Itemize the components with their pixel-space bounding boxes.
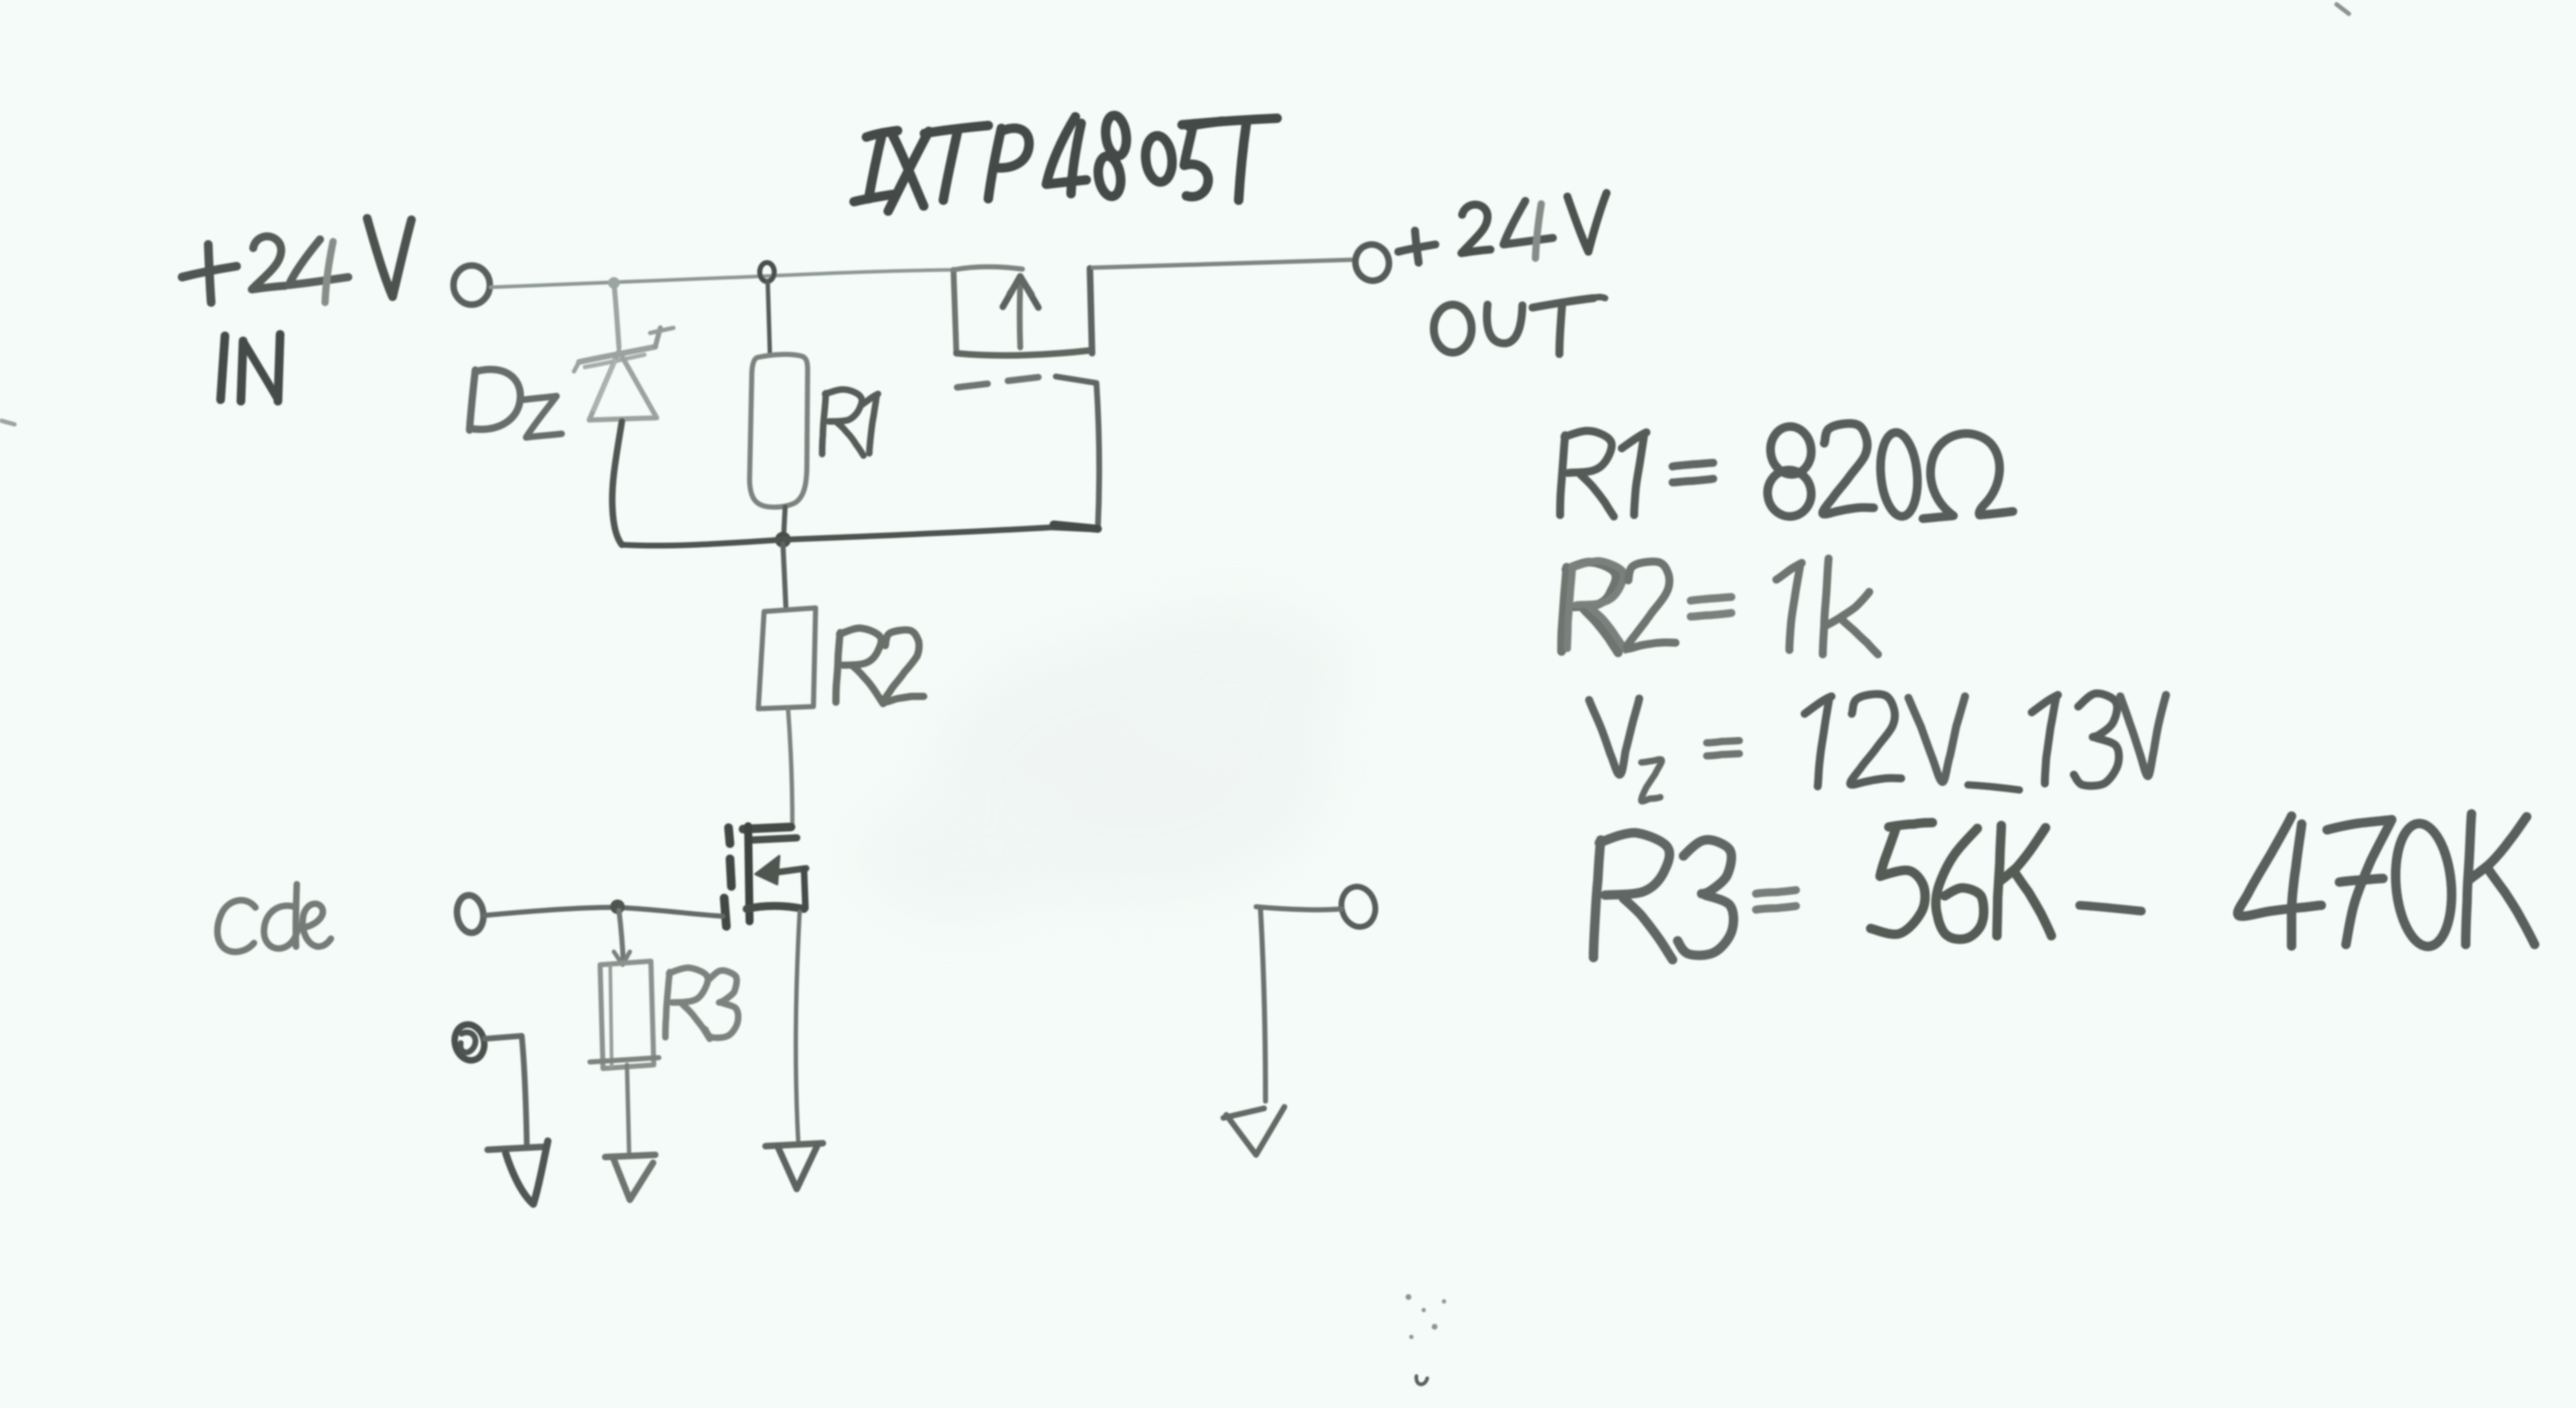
node rail-R1 junction	[760, 263, 774, 281]
wire R2 top from junction	[783, 544, 786, 606]
node gate-net junction (R1/R2/zener)	[775, 532, 791, 548]
wire OUT ground terminal	[1256, 907, 1342, 1101]
wire R1 top from rail junction	[768, 281, 770, 354]
note Vz = 12V-13V	[1589, 693, 2166, 802]
terminal +24V IN	[454, 265, 490, 305]
zener diode Dz	[574, 328, 673, 420]
ground (under Q2)	[766, 1143, 823, 1189]
wire P-MOSFET to OUT terminal	[1093, 260, 1354, 268]
ground (under R3)	[605, 1155, 655, 1200]
wire Q2 source to ground	[796, 912, 800, 1140]
label IN	[221, 334, 280, 401]
p-mosfet gate dashed line	[957, 377, 1038, 387]
speckle marks bottom center	[1406, 1294, 1446, 1384]
note R2 = 1k	[1562, 559, 1878, 654]
wire junction to R3	[614, 910, 630, 965]
wire zener anode down-curve to gate net	[612, 421, 622, 545]
label title IXTP4805T	[854, 115, 1277, 211]
terminal cde	[455, 894, 486, 935]
label +24V (input)	[182, 218, 411, 302]
label Dz	[469, 369, 562, 437]
label cde	[218, 884, 331, 952]
ground (lower-left)	[488, 1141, 548, 1204]
node cde-R3 junction	[610, 899, 625, 914]
wire +24V rail: IN terminal to P-MOSFET	[491, 270, 951, 287]
note R1 = 820 ohm	[1560, 424, 2013, 519]
resistor R1	[750, 355, 808, 508]
label OUT	[1434, 297, 1605, 355]
p-mosfet Q1 IXTP4805T body box	[953, 267, 1092, 355]
wire cde to Q2 gate	[484, 907, 723, 916]
label R1	[822, 390, 878, 456]
p-mosfet source arrow (up)	[1003, 276, 1038, 347]
terminal lower-left (scribbled)	[451, 1021, 488, 1064]
mark left edge	[1, 421, 15, 424]
label +24V (output	[1398, 193, 1607, 263]
mark top-right corner	[2337, 4, 2349, 14]
p-mosfet gate lead	[1054, 376, 1099, 529]
ground (OUT side)	[1223, 1107, 1284, 1155]
wire R2 bottom to Q2 drain	[788, 709, 792, 827]
note R3 = 56K-470K	[1593, 814, 2535, 960]
label R2	[836, 628, 924, 704]
resistor R3	[600, 961, 654, 1069]
wire lower-left terminal to ground	[485, 1036, 527, 1145]
wire zener stem from rail	[608, 277, 620, 347]
wire R1 bottom to junction	[784, 507, 785, 535]
terminal +24V OUT	[1352, 242, 1392, 284]
wire R3 bottom to ground	[590, 1058, 659, 1153]
resistor R2	[758, 608, 816, 709]
label R3	[665, 968, 738, 1039]
paper smudge center	[856, 602, 1350, 921]
terminal OUT-side ground	[1337, 883, 1379, 930]
n-mosfet Q2	[724, 826, 806, 926]
wire gate net horizontal (zener/R1/R2 to P-MOSFET gate)	[622, 527, 1097, 546]
